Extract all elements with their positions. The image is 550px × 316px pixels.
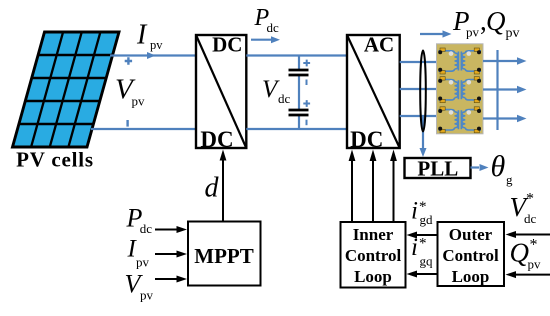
block MPPT — [188, 222, 261, 286]
wire PV+ to DC/DC — [110, 54, 196, 56]
svg-text:PLL: PLL — [417, 157, 458, 181]
svg-text:pv: pv — [150, 38, 163, 52]
measurement ellipse — [420, 51, 426, 132]
wire PLL tap — [422, 117, 424, 152]
label V_pv — [115, 74, 145, 109]
svg-text:DC: DC — [350, 127, 383, 152]
label V*_dc — [510, 191, 537, 227]
converter AC/DC — [347, 33, 400, 153]
capacitor C1 — [289, 70, 309, 75]
wire AC phase B — [400, 88, 437, 90]
label + C1 — [303, 60, 310, 67]
svg-text:Loop: Loop — [452, 267, 490, 286]
svg-text:*: * — [419, 236, 427, 252]
label I_pv input — [127, 236, 150, 270]
wire DC/DC to AC/DC bottom — [246, 128, 347, 130]
label + C2 — [303, 100, 310, 107]
label V_dc — [262, 76, 291, 106]
svg-text:i: i — [411, 198, 418, 225]
svg-text:pv: pv — [132, 94, 146, 109]
wire control gate 3 — [390, 150, 397, 223]
arrow Q*_pv into Outer — [506, 271, 550, 278]
arrow i*_gd Outer to Inner — [407, 232, 438, 239]
wire grid phase A — [483, 57, 527, 65]
label - C2 — [306, 120, 308, 126]
svg-text:Inner: Inner — [353, 225, 394, 244]
svg-text:pv: pv — [528, 257, 542, 272]
svg-text:gd: gd — [420, 212, 434, 227]
transformer T2 — [438, 77, 481, 103]
label P_pv , Q_pv — [452, 6, 520, 41]
arrow V_pv into MPPT — [155, 276, 187, 283]
arrow P_dc into MPPT — [155, 226, 187, 233]
label - — [126, 120, 128, 127]
arrow PLL out — [471, 164, 489, 171]
svg-text:PV cells: PV cells — [16, 148, 94, 172]
wire PV- to DC/DC — [91, 128, 196, 130]
capacitor C2 — [289, 110, 309, 115]
wire control gate 1 — [349, 150, 356, 223]
block Inner Control Loop — [341, 222, 406, 288]
wire grid phase B — [483, 86, 527, 94]
svg-text:g: g — [506, 172, 513, 187]
svg-text:DC: DC — [212, 33, 242, 57]
wire DC/DC to AC/DC top — [246, 54, 347, 56]
arrow i*_gq Outer to Inner — [407, 271, 438, 278]
svg-text:dc: dc — [278, 91, 291, 106]
label + — [125, 57, 132, 64]
svg-text:I: I — [136, 20, 148, 51]
wire AC phase C — [400, 115, 437, 117]
svg-text:gq: gq — [420, 254, 434, 269]
svg-text:Q: Q — [486, 6, 506, 36]
svg-text:i: i — [411, 234, 418, 261]
arrowhead I_pv — [147, 52, 156, 59]
svg-text:pv: pv — [140, 288, 154, 303]
arrow P_dc — [251, 36, 280, 43]
arrow P_pv Q_pv — [420, 30, 452, 37]
svg-text:dc: dc — [524, 211, 537, 226]
svg-text:pv: pv — [506, 26, 520, 41]
svg-text:Loop: Loop — [354, 267, 392, 286]
arrowhead PLL input — [420, 148, 427, 157]
transformer T3 — [438, 107, 481, 133]
transformer T1 — [438, 48, 481, 74]
arrowhead d — [220, 150, 227, 161]
svg-text:Q: Q — [510, 238, 530, 268]
svg-text:*: * — [530, 237, 538, 254]
label I_pv — [136, 20, 163, 53]
svg-text:d: d — [205, 173, 220, 204]
block PLL — [405, 157, 471, 181]
label V_pv input — [125, 270, 154, 303]
svg-text:dc: dc — [267, 20, 280, 35]
PV array panel — [12, 32, 119, 147]
svg-text:Control: Control — [442, 246, 499, 265]
node capacitor branch — [298, 56, 300, 130]
label i*_gd — [411, 198, 433, 228]
svg-text:Outer: Outer — [449, 225, 493, 244]
converter DC/DC — [196, 33, 246, 153]
wire d MPPT to DC/DC — [222, 155, 224, 221]
svg-text:DC: DC — [200, 127, 233, 152]
label P_dc — [254, 5, 280, 35]
label Q*_pv — [510, 237, 542, 272]
svg-text:pv: pv — [466, 25, 480, 40]
arrow V*_dc into Outer — [506, 231, 550, 238]
label theta_g — [491, 150, 514, 187]
wire control gate 2 — [370, 150, 377, 223]
wire grid phase C — [483, 115, 527, 123]
svg-text:*: * — [526, 191, 534, 208]
label - C1 — [306, 80, 308, 86]
svg-text:θ: θ — [491, 150, 506, 183]
grid bus line — [496, 50, 498, 130]
svg-text:Control: Control — [345, 246, 402, 265]
svg-text:dc: dc — [140, 221, 153, 236]
transformer bank box — [437, 44, 484, 134]
svg-text:MPPT: MPPT — [194, 244, 253, 268]
svg-text:pv: pv — [136, 255, 150, 270]
arrow I_pv into MPPT — [155, 251, 187, 258]
block Outer Control Loop — [438, 222, 505, 286]
svg-text:AC: AC — [364, 33, 394, 57]
wire AC phase A — [400, 61, 437, 63]
label P_dc input — [126, 204, 153, 236]
label i*_gq — [411, 234, 433, 269]
